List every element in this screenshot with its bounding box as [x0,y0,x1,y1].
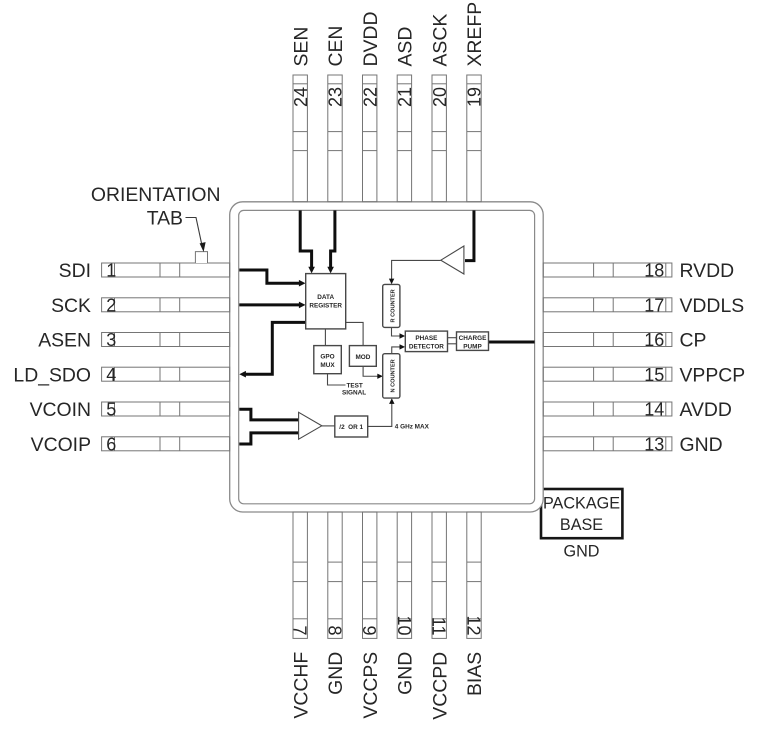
svg-text:REGISTER: REGISTER [309,302,342,309]
svg-text:21: 21 [395,87,415,107]
svg-text:GND: GND [680,434,723,456]
svg-text:16: 16 [644,330,664,350]
svg-text:PACKAGE: PACKAGE [543,495,620,513]
svg-text:CP: CP [680,330,707,352]
svg-text:PUMP: PUMP [463,344,482,351]
svg-text:ASD: ASD [395,27,417,67]
svg-text:XREFP: XREFP [464,2,486,67]
svg-text:14: 14 [644,400,664,420]
svg-text:22: 22 [360,87,380,107]
svg-text:3: 3 [106,330,116,350]
svg-text:BASE: BASE [560,516,603,534]
svg-text:BIAS: BIAS [464,652,486,696]
svg-text:TAB: TAB [147,208,183,230]
svg-text:VCOIN: VCOIN [30,399,91,421]
svg-text:18: 18 [644,261,664,281]
svg-text:12: 12 [463,615,483,635]
svg-text:10: 10 [394,615,414,635]
svg-text:GND: GND [564,543,600,561]
svg-text:4 GHz MAX: 4 GHz MAX [395,423,430,430]
svg-text:SIGNAL: SIGNAL [342,390,366,397]
svg-text:VCOIP: VCOIP [31,434,91,456]
svg-text:/2 OR 1: /2 OR 1 [339,424,363,431]
svg-text:17: 17 [644,295,664,315]
svg-text:SCK: SCK [51,295,91,317]
svg-text:8: 8 [324,625,344,635]
svg-text:13: 13 [644,434,664,454]
svg-text:RVDD: RVDD [680,260,735,282]
svg-text:VCCPD: VCCPD [429,652,451,720]
svg-text:SDI: SDI [59,260,91,282]
svg-text:2: 2 [106,295,116,315]
svg-text:15: 15 [644,365,664,385]
svg-text:20: 20 [430,87,450,107]
svg-text:GND: GND [325,652,347,695]
svg-text:DETECTOR: DETECTOR [409,344,444,351]
svg-text:ASCK: ASCK [429,14,451,67]
svg-text:23: 23 [326,87,346,107]
svg-text:N COUNTER: N COUNTER [390,359,396,392]
svg-text:LD_SDO: LD_SDO [13,364,91,386]
svg-text:GND: GND [395,652,417,695]
svg-text:VCCPS: VCCPS [360,652,382,719]
svg-text:ASEN: ASEN [38,330,91,352]
svg-text:5: 5 [106,400,116,420]
svg-text:ORIENTATION: ORIENTATION [91,184,221,206]
svg-text:VDDLS: VDDLS [680,295,745,317]
svg-text:DATA: DATA [317,294,334,301]
svg-text:1: 1 [106,261,116,281]
svg-text:7: 7 [290,625,310,635]
svg-text:MOD: MOD [355,354,370,361]
svg-text:PHASE: PHASE [415,335,438,342]
svg-text:CEN: CEN [325,26,347,67]
svg-text:R COUNTER: R COUNTER [390,289,396,322]
svg-text:19: 19 [465,87,485,107]
svg-text:CHARGE: CHARGE [459,335,487,342]
svg-text:DVDD: DVDD [360,12,382,67]
svg-text:MUX: MUX [320,362,335,369]
svg-text:VCCHF: VCCHF [290,652,312,719]
svg-text:24: 24 [291,87,311,107]
svg-text:9: 9 [359,625,379,635]
svg-text:GPO: GPO [320,354,334,361]
svg-text:VPPCP: VPPCP [680,364,746,386]
svg-text:6: 6 [106,434,116,454]
svg-text:11: 11 [429,617,449,636]
svg-text:AVDD: AVDD [680,399,732,421]
svg-text:4: 4 [106,365,116,385]
svg-text:SEN: SEN [290,27,312,67]
